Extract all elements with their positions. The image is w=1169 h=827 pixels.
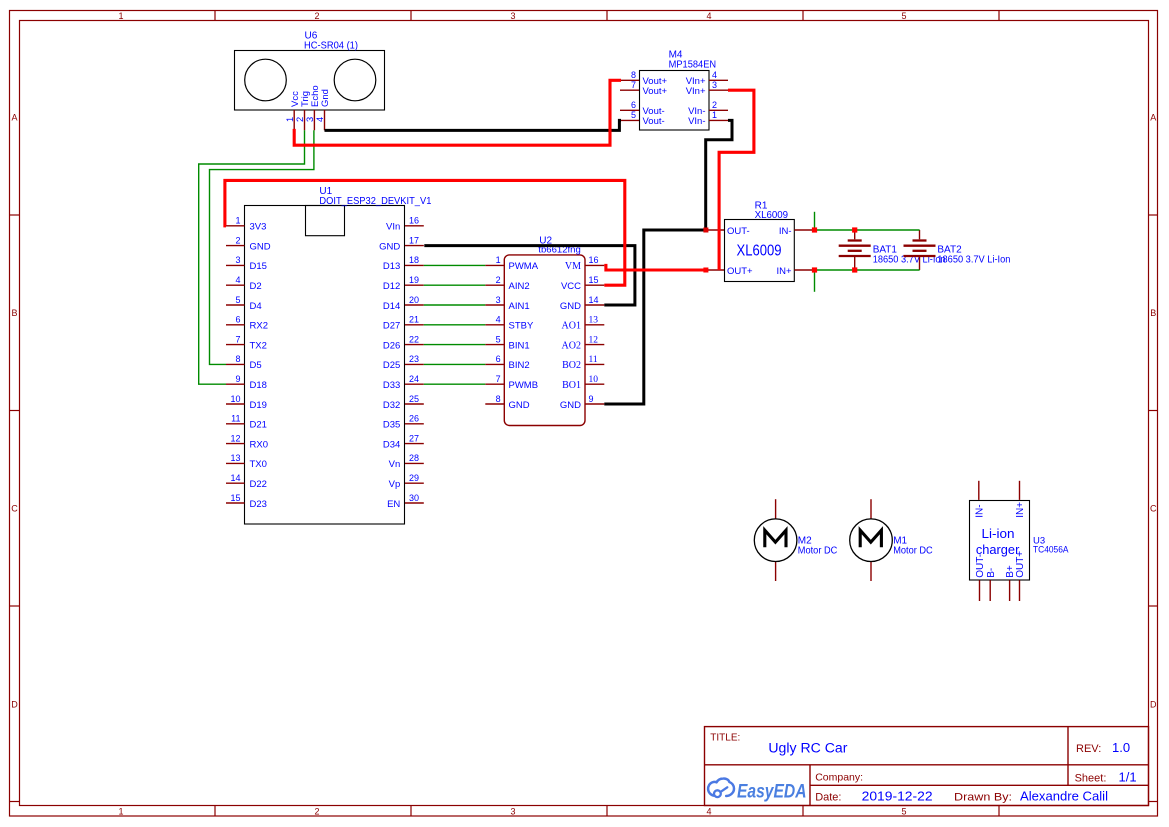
wire red VIN: M4.VIn+ pin3 to R1.OUT+ [719,90,754,270]
U1 pin 5 (D4) [226,295,262,312]
svg-text:D15: D15 [250,261,267,272]
junction at OUT- / black GND net [703,228,708,233]
wire red VM: U2.VM16 to R1.OUT+ junction [604,265,706,270]
svg-text:Vout+: Vout+ [643,86,668,97]
wire red VCC: U6.Vcc to M4.Vout+ pin8 [294,80,621,145]
svg-text:17: 17 [409,235,419,245]
svg-text:18650 3.7V Li-Ion: 18650 3.7V Li-Ion [937,254,1010,265]
svg-text:TITLE:: TITLE: [710,732,740,743]
U2 pin 9 (GND) [560,394,604,411]
svg-text:4: 4 [315,117,325,122]
svg-text:D18: D18 [250,380,267,391]
U1 pin 18 (D13) [383,255,424,272]
junction IN+ BAT1 [852,267,857,272]
U1 pin 11 (D21) [226,414,267,431]
U1 pin 20 (D14) [383,295,424,312]
svg-text:12: 12 [589,335,599,345]
M1 labels [893,536,933,557]
M4 pin 8 (Vout+) [620,70,668,87]
svg-text:23: 23 [409,354,419,364]
svg-text:VIn: VIn [386,222,400,233]
M4 pin 3 (VIn+) [686,80,728,97]
svg-text:D32: D32 [383,400,400,411]
frame column numbers top [118,11,906,21]
svg-text:HC-SR04 (1): HC-SR04 (1) [304,41,358,52]
svg-text:OUT-: OUT- [975,554,986,578]
U1 pin 13 (TX0) [226,453,267,470]
U1 pin 10 (D19) [226,394,267,411]
svg-text:11: 11 [231,414,240,424]
svg-text:29: 29 [409,473,419,483]
svg-text:D2: D2 [250,281,262,292]
U1 pin 16 (VIn) [386,216,424,233]
svg-text:2: 2 [496,275,501,285]
svg-text:RX2: RX2 [250,321,268,332]
svg-text:1: 1 [285,117,295,122]
svg-text:D13: D13 [383,261,400,272]
svg-text:DOIT_ESP32_DEVKIT_V1: DOIT_ESP32_DEVKIT_V1 [319,196,431,207]
svg-text:BIN1: BIN1 [509,340,530,351]
motor M2 Motor DC [754,499,797,581]
M4 pin 7 (Vout+) [620,80,668,97]
svg-text:Vn: Vn [389,459,401,470]
svg-text:5: 5 [496,334,501,344]
wire red 3V3: U1.3V3 to U2.VCC15 [225,180,625,285]
M2 labels [798,536,838,557]
svg-text:5: 5 [901,11,906,21]
U3 big name text Li-ion charger [976,527,1020,557]
svg-text:28: 28 [409,453,419,463]
U2 pin 6 (BIN2) [485,354,529,371]
U1 pin 2 (GND) [226,235,271,252]
U3 pin B- [986,568,997,601]
svg-text:D4: D4 [250,301,262,312]
svg-text:D12: D12 [383,281,400,292]
wire green Trig net: U6.2 to U1.D18 [199,130,305,384]
svg-text:2: 2 [295,117,305,122]
U2 pin 10 (BO1) [562,375,604,391]
svg-text:8: 8 [496,394,501,404]
svg-text:15: 15 [230,493,240,503]
svg-text:Drawn By:: Drawn By: [954,792,1012,804]
svg-text:B-: B- [986,568,997,578]
motor M1 Motor DC [850,499,893,581]
U2 pin 3 (AIN1) [485,295,529,312]
svg-text:D33: D33 [383,380,400,391]
svg-text:2: 2 [235,235,240,245]
U3 pin IN+ [1015,481,1026,518]
svg-text:A: A [1150,113,1156,123]
svg-text:B: B [11,308,17,318]
svg-text:GND: GND [379,241,400,252]
junction IN- stub [812,227,817,232]
svg-text:VIn+: VIn+ [686,86,706,97]
svg-text:IN+: IN+ [776,266,792,277]
U1 pin 15 (D23) [226,493,267,510]
svg-text:4: 4 [706,11,711,21]
wire green U1.24 to U2.7 [424,383,486,385]
svg-text:XL6009: XL6009 [737,243,782,260]
wire green U1.18 to U2.1 [424,264,486,266]
svg-text:A: A [11,113,17,123]
svg-text:Li-ion: Li-ion [982,527,1015,541]
svg-text:BO1: BO1 [562,380,581,391]
svg-text:D26: D26 [383,340,400,351]
U6 pin 3 (Echo) [305,85,321,130]
U2 pin 8 (GND) [485,394,529,411]
charger U3 TC4056A body [970,501,1030,581]
U1 pin 22 (D26) [383,334,424,351]
svg-text:REV:: REV: [1076,743,1101,755]
M4 pin 4 (VIn+) [686,70,728,87]
svg-text:AIN1: AIN1 [509,301,530,312]
U1 pin 24 (D33) [383,374,424,391]
U2 pin 11 (BO2) [562,355,604,371]
svg-text:2: 2 [314,11,319,21]
wire green stub below IN+ [814,270,816,292]
svg-text:D: D [1150,700,1157,710]
svg-text:D5: D5 [250,360,262,371]
U2 pin 7 (PWMB) [485,374,538,391]
U1 pin 25 (D32) [383,394,424,411]
wire black GND: U6.Gnd to M4.Vout- pin5 [325,120,622,130]
svg-text:6: 6 [631,100,636,110]
U2 pin 15 (VCC) [561,275,604,292]
svg-text:4: 4 [706,807,711,817]
svg-text:PWMA: PWMA [509,261,539,272]
R1 pin OUT- [706,226,750,237]
wire green stub above IN- [814,212,816,230]
svg-text:2: 2 [314,807,319,817]
svg-text:7: 7 [235,334,240,344]
svg-text:11: 11 [589,355,598,365]
svg-text:4: 4 [712,70,717,80]
U1 pin 21 (D27) [383,315,424,332]
wire green U1.22 to U2.5 [424,344,486,346]
U1 pin 4 (D2) [226,275,262,292]
svg-text:2: 2 [712,100,717,110]
svg-text:D27: D27 [383,321,400,332]
svg-text:5: 5 [631,110,636,120]
svg-text:D23: D23 [250,499,267,510]
wire green U1.23 to U2.6 [424,363,486,365]
wire green U1.19 to U2.2 [424,284,486,286]
svg-text:EasyEDA: EasyEDA [737,781,807,803]
M4 pin 2 (VIn-) [688,100,728,117]
svg-text:1/1: 1/1 [1119,769,1137,784]
svg-text:3V3: 3V3 [250,222,267,233]
svg-text:TX2: TX2 [250,340,267,351]
svg-text:BO2: BO2 [562,360,581,371]
junction IN+ stub [812,267,817,272]
svg-text:D22: D22 [250,479,267,490]
svg-text:1: 1 [496,255,501,265]
U2 pin 12 (AO2) [562,335,605,351]
wire black GND: U2.GND9 to OUT- junction [604,230,706,404]
svg-text:19: 19 [409,275,419,285]
M4 pin 1 (VIn-) [688,110,728,127]
svg-text:EN: EN [387,499,400,510]
U1 pin 27 (D34) [383,433,424,450]
U2 pin 13 (AO1) [562,316,605,332]
R1 pin OUT+ [706,266,753,277]
U1 pin 30 (EN) [387,493,424,510]
BAT1 labels [873,244,946,265]
svg-text:16: 16 [589,255,599,265]
U1 pin 1 (3V3) [226,216,266,233]
svg-text:OUT+: OUT+ [1015,551,1026,578]
svg-text:18: 18 [409,255,419,265]
U2 pin 1 (PWMA) [485,255,538,272]
U1 pin 7 (TX2) [226,334,267,351]
svg-text:9: 9 [235,374,240,384]
svg-text:1: 1 [118,807,123,817]
battery BAT1 18650 3.7V Li-Ion [839,230,871,270]
svg-text:Gnd: Gnd [320,89,331,107]
U1 pin 8 (D5) [226,354,262,371]
svg-text:5: 5 [901,807,906,817]
U1 pin 12 (RX0) [226,433,268,450]
U1 pin 3 (D15) [226,255,267,272]
svg-text:D19: D19 [250,400,267,411]
svg-text:TX0: TX0 [250,459,267,470]
R1 pin IN+ [776,266,814,277]
svg-text:1: 1 [118,11,123,21]
M4 pin 5 (Vout-) [620,110,665,127]
svg-text:30: 30 [409,493,419,503]
svg-text:Company:: Company: [815,772,863,784]
svg-text:Vp: Vp [389,479,401,490]
svg-text:12: 12 [230,433,240,443]
wire black GND: M4.VIn- pin1 to OUT- junction [706,120,732,230]
svg-text:Alexandre Calil: Alexandre Calil [1020,789,1108,804]
wire green Echo net: U6.3 to U1.D5 [210,130,314,364]
svg-text:3: 3 [305,117,315,122]
U2 pin 5 (BIN1) [485,334,529,351]
svg-text:XL6009: XL6009 [755,210,789,221]
svg-text:OUT+: OUT+ [727,266,753,277]
svg-text:21: 21 [409,315,419,325]
svg-text:3: 3 [496,295,501,305]
svg-text:VIn-: VIn- [688,116,705,127]
frame row letters left [11,113,18,710]
svg-text:Ugly RC Car: Ugly RC Car [768,740,848,755]
svg-text:9: 9 [589,394,594,404]
svg-text:GND: GND [509,400,530,411]
junction at OUT+ / red net [703,268,708,273]
svg-text:25: 25 [409,394,419,404]
svg-text:1: 1 [235,216,240,226]
svg-text:C: C [1150,504,1157,514]
svg-text:VM: VM [565,261,581,272]
EasyEDA logo cloud icon [708,778,734,797]
U2 pin 16 (VM) [565,255,604,272]
wire green IN+ net to batteries [815,269,920,271]
svg-text:26: 26 [409,414,419,424]
wire green U1.20 to U2.3 [424,304,486,306]
svg-text:27: 27 [409,433,419,443]
svg-text:IN-: IN- [779,226,792,237]
U2 pin 2 (AIN2) [485,275,529,292]
wire green IN- net to batteries [815,229,920,231]
svg-text:15: 15 [589,275,599,285]
svg-text:D21: D21 [250,420,267,431]
svg-text:6: 6 [235,315,240,325]
svg-text:10: 10 [589,375,599,385]
U3 pin OUT+ [1015,551,1026,601]
U3 pin IN- [974,481,985,518]
svg-text:D35: D35 [383,420,400,431]
U3 pin B+ [1005,565,1016,601]
svg-text:10: 10 [230,394,240,404]
svg-text:VCC: VCC [561,281,581,292]
svg-text:8: 8 [631,70,636,80]
svg-text:7: 7 [496,374,501,384]
svg-text:13: 13 [589,316,599,326]
svg-text:IN-: IN- [974,504,985,517]
U1 pin 14 (D22) [226,473,267,490]
svg-text:5: 5 [235,295,240,305]
svg-text:6: 6 [496,354,501,364]
U2 pin 14 (GND) [560,295,604,312]
frame row letters right [1150,113,1157,710]
BAT2 labels [937,244,1010,265]
svg-text:GND: GND [560,301,581,312]
svg-text:22: 22 [409,334,419,344]
svg-text:1.0: 1.0 [1112,740,1130,755]
svg-text:4: 4 [496,315,501,325]
svg-text:MP1584EN: MP1584EN [669,60,717,71]
U3 pin OUT- [975,554,986,601]
svg-text:AO2: AO2 [562,340,581,351]
U2 pin 4 (STBY) [485,315,534,332]
motor driver U2 tb6612fng body [504,255,585,426]
svg-text:GND: GND [560,400,581,411]
frame column numbers bottom [118,807,906,817]
svg-text:STBY: STBY [509,321,534,332]
U1 pin 19 (D12) [383,275,424,292]
svg-text:8: 8 [235,354,240,364]
svg-text:RX0: RX0 [250,439,268,450]
svg-text:D: D [11,700,18,710]
svg-text:BIN2: BIN2 [509,360,530,371]
ultrasonic sensor U6 HC-SR04 body [235,51,385,111]
svg-text:GND: GND [250,241,271,252]
U1 pin 26 (D35) [383,414,424,431]
svg-text:14: 14 [589,295,599,305]
svg-text:24: 24 [409,374,419,384]
svg-text:Date:: Date: [815,792,841,804]
svg-text:16: 16 [409,216,419,226]
M4 pin 6 (Vout-) [620,100,665,117]
svg-text:3: 3 [510,11,515,21]
svg-text:AO1: AO1 [562,321,581,332]
U1 pin 29 (Vp) [389,473,424,490]
svg-text:2019-12-22: 2019-12-22 [862,789,933,804]
svg-text:7: 7 [631,80,636,90]
svg-text:PWMB: PWMB [509,380,539,391]
svg-text:D14: D14 [383,301,400,312]
svg-text:Sheet:: Sheet: [1075,772,1107,784]
svg-text:IN+: IN+ [1015,502,1026,518]
svg-text:20: 20 [409,295,419,305]
boost converter R1 XL6009 body [725,220,795,282]
U6 pin 4 (Gnd) [315,89,331,130]
svg-text:D25: D25 [383,360,400,371]
svg-text:3: 3 [712,80,717,90]
svg-text:3: 3 [235,255,240,265]
buck converter module M4 MP1584EN body [640,71,710,131]
svg-text:AIN2: AIN2 [509,281,530,292]
U6 pin 2 (Trig) [295,91,311,130]
U1 pin 9 (D18) [226,374,267,391]
U1 pin 17 (GND) [379,235,424,252]
title block frame [705,727,1149,806]
wire black GND: U1.GND17 to U2.GND14 [424,246,635,305]
battery BAT2 18650 3.7V Li-Ion [904,230,936,270]
svg-text:1: 1 [712,110,717,120]
wire green U1.21 to U2.4 [424,324,486,326]
junction IN- BAT1 [852,227,857,232]
svg-text:14: 14 [230,473,240,483]
R1 pin IN- [779,226,815,237]
svg-text:Vout-: Vout- [643,116,665,127]
microcontroller U1 DOIT_ESP32_DEVKIT_V1 body [245,206,405,525]
svg-text:3: 3 [510,807,515,817]
svg-text:Motor DC: Motor DC [798,545,838,556]
U1 pin 6 (RX2) [226,315,268,332]
svg-text:Motor DC: Motor DC [893,545,933,556]
U1 pin 23 (D25) [383,354,424,371]
svg-text:D34: D34 [383,439,400,450]
svg-text:B: B [1150,308,1156,318]
svg-text:TC4056A: TC4056A [1033,545,1069,556]
svg-text:C: C [11,504,18,514]
U1 pin 28 (Vn) [389,453,424,470]
svg-text:4: 4 [235,275,240,285]
svg-text:OUT-: OUT- [727,226,750,237]
U6 pin 1 (Vcc) [285,91,301,130]
svg-text:13: 13 [230,453,240,463]
